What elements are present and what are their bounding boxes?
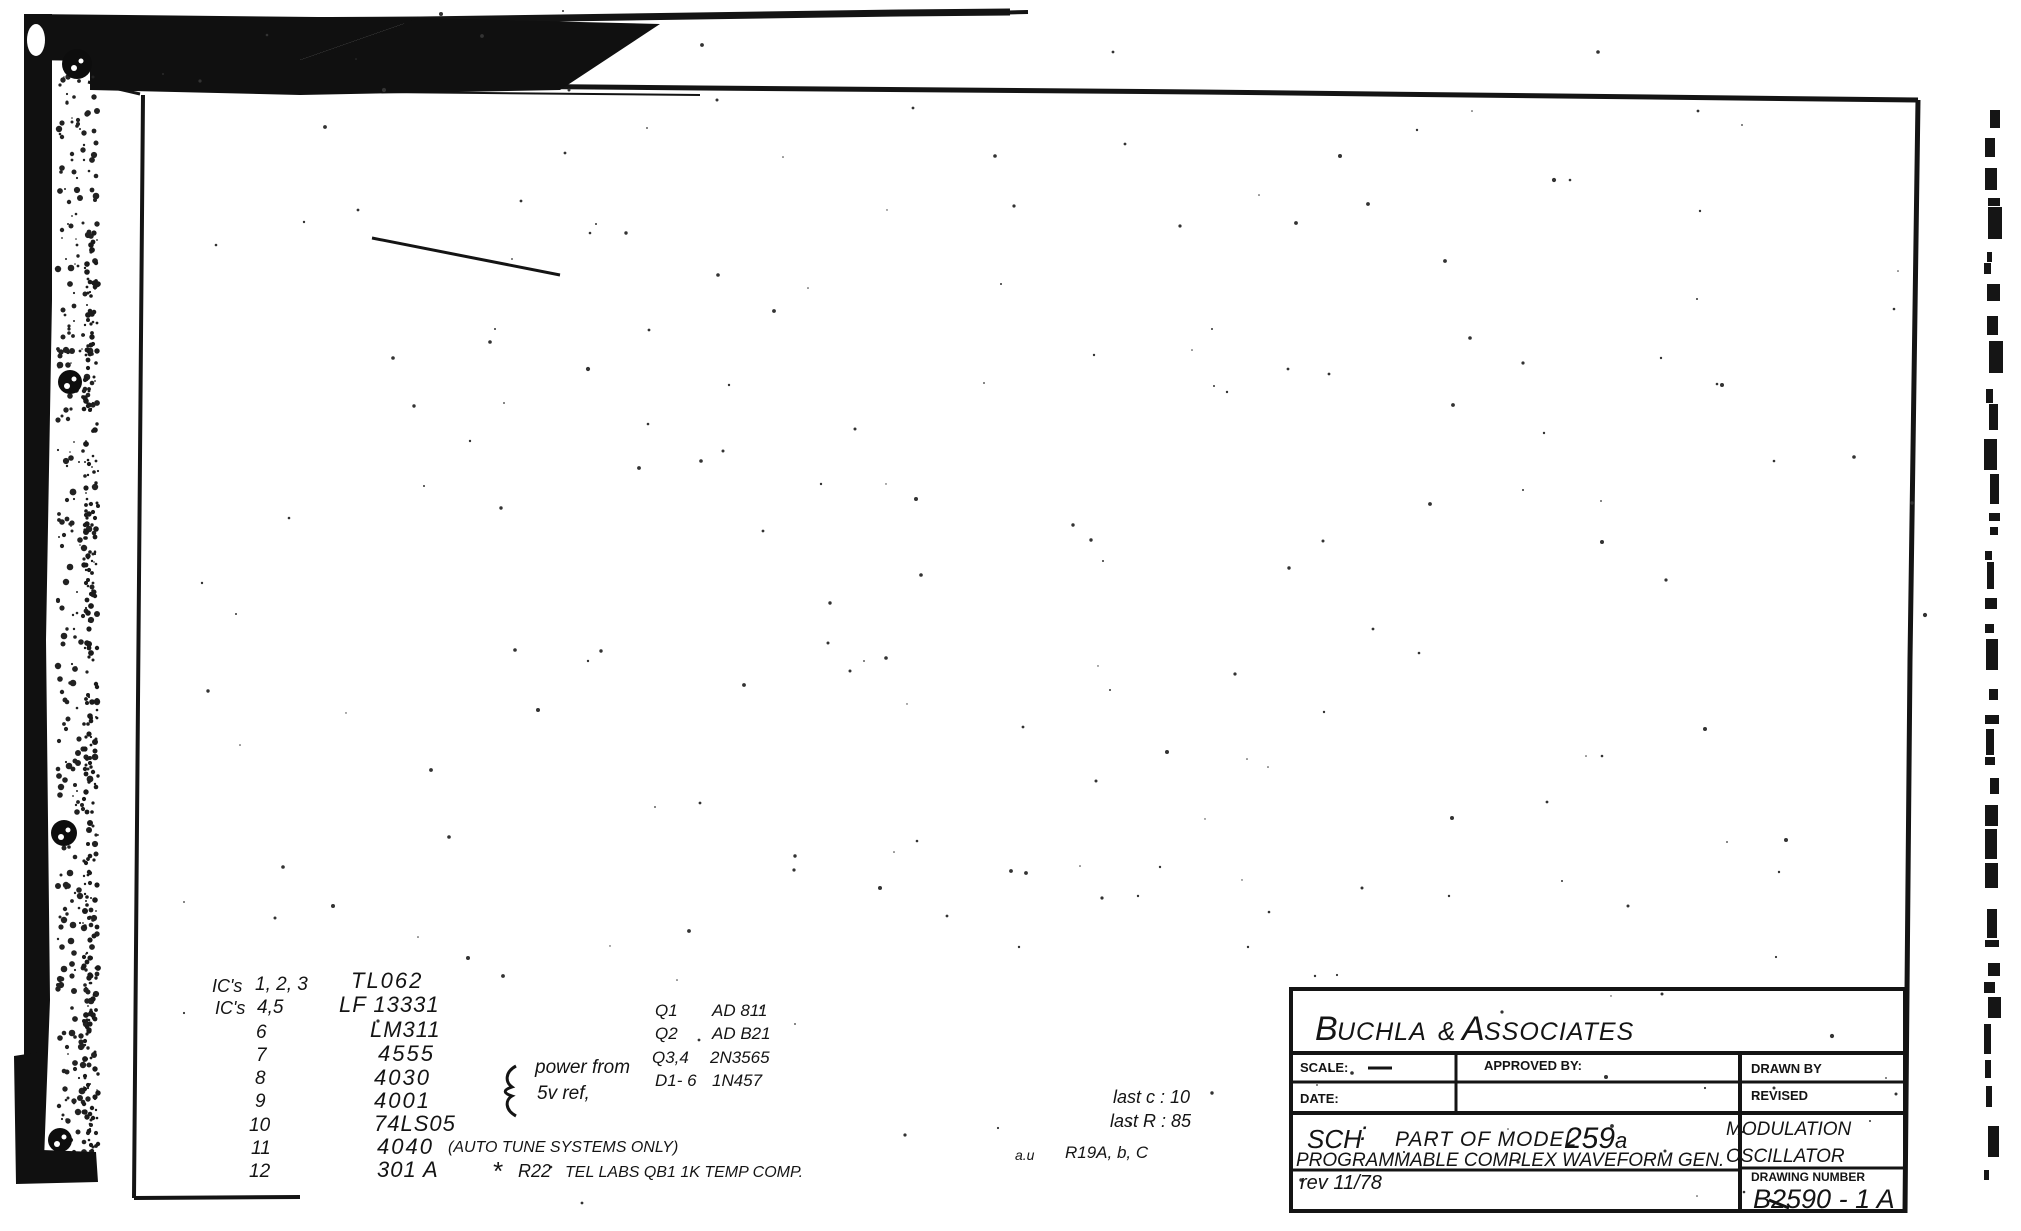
svg-text:LM311: LM311 <box>370 1017 441 1042</box>
svg-text::: : <box>1360 1116 1367 1146</box>
svg-text:Q3,4: Q3,4 <box>652 1048 689 1067</box>
svg-text:4555: 4555 <box>378 1041 435 1066</box>
svg-text:a.u: a.u <box>1015 1147 1035 1163</box>
svg-text:Q2: Q2 <box>655 1024 678 1043</box>
svg-text:R19A, b, C: R19A, b, C <box>1065 1143 1149 1162</box>
svg-text:IC's: IC's <box>215 998 245 1018</box>
svg-text:D1- 6: D1- 6 <box>655 1071 697 1090</box>
svg-text:MODULATION: MODULATION <box>1726 1119 1852 1140</box>
svg-text:last R : 85: last R : 85 <box>1110 1111 1192 1131</box>
svg-text:1N457: 1N457 <box>712 1071 763 1090</box>
svg-text:TL062: TL062 <box>351 968 423 993</box>
svg-text:REVISED: REVISED <box>1751 1088 1808 1103</box>
svg-text:DRAWING NUMBER: DRAWING NUMBER <box>1751 1170 1865 1184</box>
svg-text:TEL LABS QB1 1K TEMP COMP: TEL LABS QB1 1K TEMP COMP. <box>565 1164 803 1181</box>
svg-text:rev 11/78: rev 11/78 <box>1300 1172 1382 1194</box>
svg-text:10: 10 <box>249 1115 271 1136</box>
svg-text:SSOCIATES: SSOCIATES <box>1484 1018 1634 1046</box>
svg-text:Q1: Q1 <box>655 1001 678 1020</box>
svg-text:2N3565: 2N3565 <box>709 1048 770 1067</box>
svg-text:DATE:: DATE: <box>1300 1091 1339 1106</box>
svg-text:1, 2, 3: 1, 2, 3 <box>255 974 308 995</box>
svg-text:PART OF MODEL: PART OF MODEL <box>1395 1128 1577 1151</box>
svg-text:R22: R22 <box>518 1161 551 1181</box>
svg-text:APPROVED BY:: APPROVED BY: <box>1484 1058 1582 1073</box>
svg-text:LF 13331: LF 13331 <box>339 992 440 1017</box>
svg-text:&: & <box>1438 1016 1455 1046</box>
svg-text:74LS05: 74LS05 <box>374 1111 456 1136</box>
svg-text:OSCILLATOR: OSCILLATOR <box>1726 1146 1845 1167</box>
svg-text:*: * <box>492 1156 503 1186</box>
svg-text:UCHLA: UCHLA <box>1337 1018 1427 1046</box>
svg-text:B2590 - 1 A: B2590 - 1 A <box>1753 1184 1895 1214</box>
svg-text:7: 7 <box>256 1045 268 1066</box>
svg-text:AD B21: AD B21 <box>711 1024 771 1043</box>
svg-text:A: A <box>1460 1010 1485 1048</box>
svg-text:last c : 10: last c : 10 <box>1113 1087 1190 1107</box>
svg-text:6: 6 <box>256 1022 267 1043</box>
svg-text:SCALE:: SCALE: <box>1300 1060 1348 1075</box>
svg-text:PROGRAMMABLE COMPLEX WAVEFOR: PROGRAMMABLE COMPLEX WAVEFORM GEN. <box>1296 1150 1724 1171</box>
svg-text:4030: 4030 <box>374 1065 431 1090</box>
svg-text:4040: 4040 <box>377 1134 434 1159</box>
svg-text:(AUTO TUNE SYSTEMS ONLY): (AUTO TUNE SYSTEMS ONLY) <box>448 1139 678 1156</box>
svg-text:B: B <box>1315 1010 1338 1048</box>
svg-text:IC's: IC's <box>212 976 242 996</box>
svg-text:301 A: 301 A <box>377 1157 439 1182</box>
svg-text:9: 9 <box>255 1091 266 1112</box>
svg-text:5v ref,: 5v ref, <box>537 1083 590 1104</box>
svg-text:4001: 4001 <box>374 1088 431 1113</box>
svg-text:AD 811: AD 811 <box>711 1001 767 1020</box>
svg-text:12: 12 <box>249 1161 271 1182</box>
svg-text:11: 11 <box>251 1138 271 1159</box>
svg-text:8: 8 <box>255 1068 266 1089</box>
svg-text:DRAWN BY: DRAWN BY <box>1751 1061 1822 1076</box>
svg-text:4,5: 4,5 <box>257 997 284 1018</box>
svg-text:power from: power from <box>534 1057 630 1078</box>
